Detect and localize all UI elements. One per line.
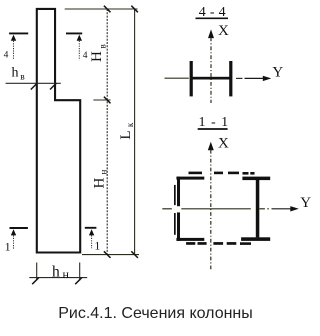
- svg-text:н: н: [63, 267, 70, 281]
- h_v dimension line: [6, 82, 61, 84]
- section 1-1 Y axis: [162, 206, 298, 211]
- svg-text:L: L: [118, 130, 134, 139]
- column outline: [37, 9, 80, 253]
- label L_k rotated: [118, 122, 135, 140]
- section 4-4 Y axis right segment: [236, 76, 271, 81]
- svg-text:Y: Y: [272, 64, 283, 80]
- svg-text:1 - 1: 1 - 1: [199, 115, 230, 130]
- tick L bottom: [131, 251, 138, 258]
- tick H top: [104, 6, 111, 13]
- h_n tick right: [75, 278, 82, 285]
- svg-text:X: X: [218, 23, 229, 39]
- section 4-4 Y axis left segment: [165, 77, 189, 79]
- svg-text:Y: Y: [300, 195, 311, 211]
- svg-text:4: 4: [4, 51, 9, 61]
- section 4-4 I-beam left flange: [190, 61, 193, 96]
- label H_v rotated: [89, 44, 107, 62]
- h_v tick right: [50, 83, 56, 89]
- section mark 1 right: [85, 228, 97, 249]
- h_n tick left: [32, 278, 39, 285]
- section 1-1 channel outer bar lower: [174, 213, 176, 235]
- section 1-1 I-beam web: [256, 180, 259, 237]
- section mark 4 right: [66, 33, 82, 60]
- svg-text:в: в: [20, 72, 25, 82]
- section 4-4 I-beam right flange: [229, 61, 232, 96]
- label h_n: [52, 264, 70, 282]
- tick H step: [104, 97, 111, 104]
- svg-text:h: h: [52, 264, 60, 281]
- title 1 - 1: [198, 115, 229, 130]
- section 1-1 top lacing dashes: [189, 172, 255, 175]
- section 1-1 channel web upper: [177, 177, 180, 207]
- svg-text:к: к: [125, 122, 135, 127]
- section 4-4 X axis: [208, 29, 214, 103]
- section mark 1 left: [10, 228, 28, 249]
- svg-text:1: 1: [94, 238, 100, 252]
- section 1-1 I-beam top flange: [242, 177, 270, 181]
- svg-text:X: X: [218, 135, 229, 151]
- section 1-1 X axis: [208, 142, 214, 271]
- svg-text:в: в: [98, 44, 108, 48]
- section 1-1 channel top flange: [176, 177, 204, 180]
- caption: [0, 305, 311, 323]
- svg-text:h: h: [12, 66, 19, 81]
- section 1-1 channel bottom flange: [176, 238, 204, 241]
- section 1-1 I-beam bottom flange: [241, 237, 270, 241]
- svg-text:н: н: [98, 170, 108, 175]
- svg-text:Н: Н: [89, 51, 105, 62]
- top extension line: [65, 8, 138, 10]
- svg-text:1: 1: [5, 239, 11, 253]
- label h_v: [12, 66, 26, 83]
- title 4 - 4: [196, 5, 229, 20]
- tick H bottom: [104, 251, 111, 258]
- H dimension line (Hv + Hn): [106, 9, 108, 255]
- h_n extension line right: [79, 263, 81, 281]
- h_v tick left: [31, 83, 37, 89]
- section mark 4 left: [9, 33, 28, 59]
- section 4-4 I-beam web: [191, 77, 233, 80]
- step extension line: [93, 99, 110, 101]
- svg-text:Н: Н: [91, 178, 107, 189]
- svg-text:4: 4: [83, 51, 88, 61]
- bottom extension line: [82, 254, 139, 256]
- L dimension line: [134, 9, 136, 255]
- label H_n rotated: [91, 170, 108, 189]
- section 1-1 channel outer bar upper: [174, 185, 176, 205]
- section 1-1 channel web lower: [177, 212, 180, 241]
- section 1-1 bottom lacing dashes: [186, 242, 251, 245]
- h_n dimension line: [29, 277, 87, 279]
- h_n extension line left: [36, 263, 38, 281]
- tick L top: [131, 6, 138, 13]
